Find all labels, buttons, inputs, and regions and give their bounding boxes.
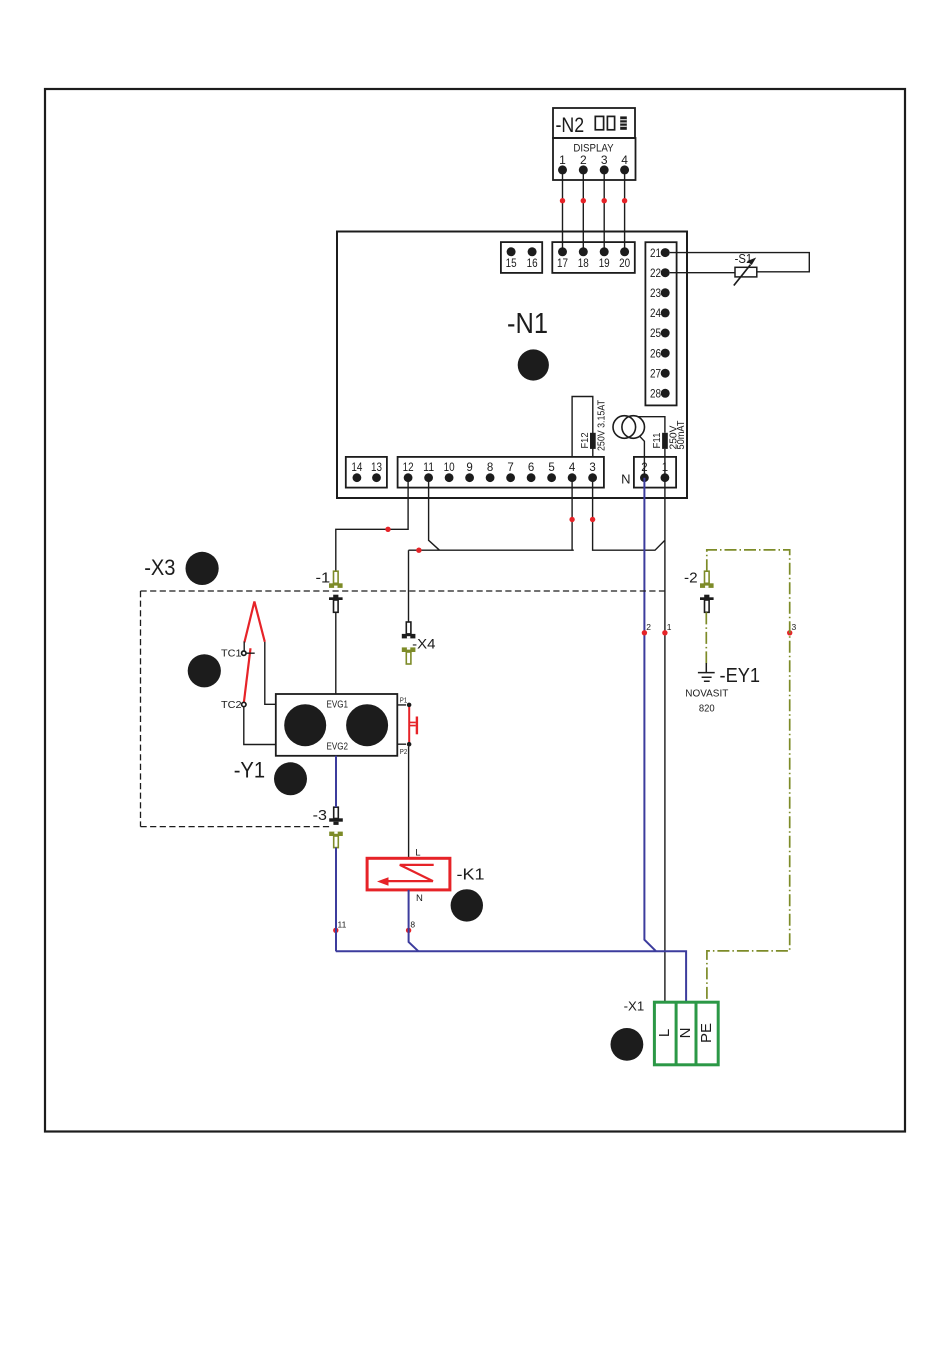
svg-text:-N1: -N1 xyxy=(507,308,548,340)
svg-text:-N2: -N2 xyxy=(556,114,585,137)
svg-text:NOVASIT: NOVASIT xyxy=(685,687,729,699)
svg-text:14: 14 xyxy=(351,462,363,474)
svg-text:22: 22 xyxy=(650,268,661,280)
svg-text:-X4: -X4 xyxy=(412,636,436,652)
svg-text:13: 13 xyxy=(371,462,382,474)
svg-text:N: N xyxy=(416,893,423,904)
svg-text:820: 820 xyxy=(699,703,715,715)
svg-text:-K1: -K1 xyxy=(457,867,485,884)
svg-text:5: 5 xyxy=(548,462,554,474)
svg-text:L: L xyxy=(656,1029,673,1037)
svg-text:2: 2 xyxy=(646,622,651,632)
svg-text:4: 4 xyxy=(621,153,628,167)
svg-text:7: 7 xyxy=(507,462,513,474)
svg-text:17: 17 xyxy=(557,258,568,270)
svg-text:F12: F12 xyxy=(579,432,591,448)
svg-text:25: 25 xyxy=(650,328,661,340)
svg-text:16: 16 xyxy=(527,258,538,270)
svg-text:11: 11 xyxy=(423,462,434,474)
svg-text:N: N xyxy=(677,1028,694,1039)
svg-text:19: 19 xyxy=(599,258,610,270)
svg-text:-X1: -X1 xyxy=(624,999,645,1014)
svg-text:28: 28 xyxy=(650,389,661,401)
svg-text:-2: -2 xyxy=(684,569,698,586)
svg-text:-X3: -X3 xyxy=(144,555,175,580)
svg-text:250V 3.15AT: 250V 3.15AT xyxy=(596,400,608,451)
svg-text:18: 18 xyxy=(578,258,589,270)
svg-text:1: 1 xyxy=(559,153,566,167)
svg-text:1: 1 xyxy=(667,622,672,632)
svg-text:3: 3 xyxy=(792,622,797,632)
svg-text:8: 8 xyxy=(487,462,493,474)
svg-text:EVG1: EVG1 xyxy=(327,699,349,710)
svg-text:L: L xyxy=(415,847,420,858)
svg-text:3: 3 xyxy=(589,462,595,474)
svg-text:2: 2 xyxy=(580,153,587,167)
svg-text:-Y1: -Y1 xyxy=(234,758,265,783)
svg-text:PE: PE xyxy=(698,1023,715,1043)
svg-text:N: N xyxy=(621,471,630,486)
svg-text:TC1: TC1 xyxy=(221,647,242,659)
svg-text:12: 12 xyxy=(403,462,414,474)
svg-text:F11: F11 xyxy=(651,432,663,448)
svg-text:P1: P1 xyxy=(400,696,408,705)
svg-text:EVG2: EVG2 xyxy=(327,742,349,753)
svg-text:-1: -1 xyxy=(316,569,331,586)
svg-text:10: 10 xyxy=(444,462,455,474)
svg-text:-3: -3 xyxy=(313,807,327,824)
svg-text:4: 4 xyxy=(569,462,576,474)
svg-text:21: 21 xyxy=(650,248,661,260)
svg-text:P2: P2 xyxy=(400,747,408,756)
svg-text:24: 24 xyxy=(650,308,662,320)
svg-text:50mAT: 50mAT xyxy=(675,420,687,450)
svg-text:-EY1: -EY1 xyxy=(720,665,761,687)
svg-text:23: 23 xyxy=(650,288,661,300)
svg-text:-S1: -S1 xyxy=(735,252,753,266)
svg-text:15: 15 xyxy=(506,258,517,270)
svg-text:9: 9 xyxy=(466,462,472,474)
svg-text:TC2: TC2 xyxy=(221,699,242,711)
svg-text:11: 11 xyxy=(338,919,347,929)
svg-text:8: 8 xyxy=(410,919,415,929)
svg-text:3: 3 xyxy=(601,153,608,167)
svg-text:27: 27 xyxy=(650,368,661,380)
svg-text:20: 20 xyxy=(619,258,630,270)
svg-text:6: 6 xyxy=(528,462,534,474)
svg-text:26: 26 xyxy=(650,348,661,360)
